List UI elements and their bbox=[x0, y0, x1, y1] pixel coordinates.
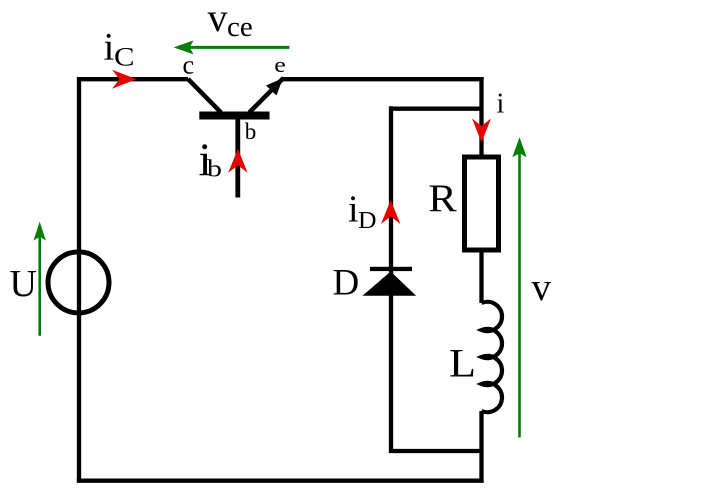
diode D triangle bbox=[362, 272, 416, 296]
svg-text:i: i bbox=[348, 189, 359, 231]
wire top-left horizontal bbox=[77, 77, 188, 81]
transistor Q1 base wire bbox=[235, 119, 240, 198]
red arrow iD pointing up bbox=[381, 200, 400, 224]
svg-text:v: v bbox=[532, 266, 552, 309]
green arrow v head pointing up bbox=[512, 137, 526, 157]
svg-text:e: e bbox=[274, 52, 286, 77]
svg-text:b: b bbox=[207, 157, 222, 183]
wire right vertical upper bbox=[479, 77, 483, 157]
voltage source U circle bbox=[48, 252, 109, 313]
red arrow ib pointing up bbox=[228, 149, 247, 173]
resistor R body bbox=[465, 157, 499, 250]
transistor Q1 emitter diagonal bbox=[249, 78, 283, 113]
wire top-right horizontal bbox=[281, 77, 484, 81]
green arrow vce line bbox=[188, 46, 289, 49]
svg-text:i: i bbox=[497, 89, 505, 120]
svg-text:b: b bbox=[245, 119, 256, 144]
svg-text:L: L bbox=[449, 340, 476, 385]
wire resistor to inductor bbox=[479, 250, 483, 303]
svg-text:c: c bbox=[183, 50, 195, 79]
green arrow v line bbox=[518, 152, 521, 438]
red arrow iC on top wire bbox=[112, 70, 137, 89]
transistor Q1 base bar bbox=[199, 112, 269, 120]
transistor Q1 emitter arrowhead bbox=[266, 78, 283, 96]
wire inductor to bottom bbox=[479, 411, 483, 482]
svg-text:C: C bbox=[114, 43, 135, 72]
svg-text:ce: ce bbox=[227, 11, 253, 43]
transistor Q1 collector diagonal bbox=[188, 79, 221, 113]
svg-text:D: D bbox=[333, 263, 360, 304]
green arrow U line bbox=[38, 236, 41, 336]
svg-text:R: R bbox=[428, 177, 457, 220]
svg-text:D: D bbox=[358, 207, 377, 234]
wire left vertical bbox=[77, 77, 81, 482]
svg-text:v: v bbox=[208, 0, 228, 40]
green arrow U head pointing up bbox=[34, 222, 46, 241]
wire diode branch vertical bbox=[389, 106, 393, 453]
diode D cathode bar bbox=[370, 267, 412, 271]
wire bottom horizontal bbox=[77, 479, 484, 483]
svg-text:U: U bbox=[10, 263, 37, 305]
svg-text:i: i bbox=[104, 25, 115, 68]
inductor L coil bbox=[482, 302, 503, 412]
red arrow i pointing down bbox=[472, 119, 491, 143]
green arrow vce head pointing left bbox=[174, 40, 194, 54]
wire diode branch bottom horizontal bbox=[389, 449, 482, 453]
wire diode branch top horizontal bbox=[389, 107, 482, 111]
